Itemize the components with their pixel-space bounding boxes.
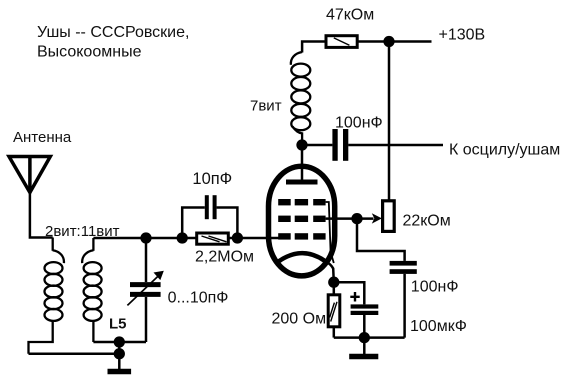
junction bottom rail xyxy=(360,333,369,342)
tube grid dashes row 1 xyxy=(278,199,325,205)
junction tank bottom B xyxy=(115,349,124,358)
svg-text:100нФ: 100нФ xyxy=(335,114,383,131)
tube grid dashes row 2 xyxy=(278,216,325,222)
junction tank bottom A xyxy=(115,338,124,347)
electrolytic capacitor 100µF wires xyxy=(334,282,365,304)
wire link xyxy=(118,342,121,354)
junction right of R 2.2M xyxy=(233,234,242,243)
junction plate node xyxy=(298,141,307,150)
wire cap bottom stub xyxy=(403,274,406,338)
tube cathode xyxy=(279,253,326,261)
junction cathode node xyxy=(329,278,338,287)
svg-text:47кОм: 47кОм xyxy=(326,6,374,23)
capacitor 10pF branch wires xyxy=(182,208,205,239)
arrow to potentiometer xyxy=(357,217,374,220)
svg-text:2,2МОм: 2,2МОм xyxy=(195,248,254,265)
svg-text:22кОм: 22кОм xyxy=(403,213,451,230)
wire plate supply rail down to pot xyxy=(388,42,391,201)
ground (cathode circuit) xyxy=(363,338,366,355)
note text: Ушы -- СССРовские, Высокоомные xyxy=(37,24,189,61)
inductor 7 turns xyxy=(291,52,310,145)
tube anode plate xyxy=(286,180,318,185)
tube grid dashes row 3 xyxy=(278,233,325,239)
variable capacitor 0…10pF xyxy=(127,238,163,342)
resistor 2.2MΩ xyxy=(197,233,229,244)
tube cathode lead xyxy=(325,261,334,282)
junction left of R 2.2M xyxy=(178,234,187,243)
svg-text:100мкФ: 100мкФ xyxy=(410,318,467,335)
ground (tank) xyxy=(118,354,121,369)
electrolytic capacitor 100µF plates xyxy=(351,304,379,308)
junction grid out xyxy=(353,214,362,223)
capacitor 100nF bottom plates xyxy=(390,261,417,266)
wire antenna lead xyxy=(30,193,53,238)
vacuum tube envelope xyxy=(269,166,335,276)
svg-text:100нФ: 100нФ xyxy=(411,279,459,296)
transformer primary coil (2 turns side) xyxy=(29,238,64,354)
svg-text:Антенна: Антенна xyxy=(13,129,72,146)
wire grid-leak RC branch xyxy=(357,219,405,261)
potentiometer 22kΩ xyxy=(383,201,395,232)
wire tank bottom rail xyxy=(93,341,146,344)
electrolytic capacitor plus sign xyxy=(350,292,359,302)
resistor 47kΩ wires xyxy=(302,42,326,53)
wire control grid to pot arrow xyxy=(326,217,357,220)
transformer secondary coil L5 (11 turns side) xyxy=(82,238,101,342)
svg-text:К осцилу/ушам: К осцилу/ушам xyxy=(449,142,560,159)
wire tank top rail xyxy=(93,237,280,240)
capacitor 100nF top plates xyxy=(332,129,337,161)
svg-text:7вит: 7вит xyxy=(250,97,282,114)
junction top rail xyxy=(385,37,394,46)
svg-text:Высокоомные: Высокоомные xyxy=(37,44,142,61)
capacitor 100nF top wires xyxy=(302,144,332,147)
svg-text:Ушы -- СССРовские,: Ушы -- СССРовские, xyxy=(37,24,189,41)
svg-text:+130В: +130В xyxy=(439,27,486,44)
bottom rail xyxy=(334,336,405,339)
resistor 47kΩ xyxy=(326,36,357,48)
resistor 200Ω xyxy=(328,295,340,327)
tube anode lead xyxy=(301,145,304,180)
svg-text:200 Ом: 200 Ом xyxy=(272,311,327,328)
junction var-cap top xyxy=(142,234,151,243)
svg-text:L5: L5 xyxy=(109,316,127,333)
capacitor 10pF plates xyxy=(205,195,209,219)
svg-text:10пФ: 10пФ xyxy=(192,170,232,188)
antenna xyxy=(9,157,50,193)
svg-text:0...10пФ: 0...10пФ xyxy=(168,290,229,307)
tube suppressor grid tie line xyxy=(326,202,334,263)
resistor 200Ω stub xyxy=(333,282,336,295)
wire primary return rail xyxy=(29,353,120,356)
